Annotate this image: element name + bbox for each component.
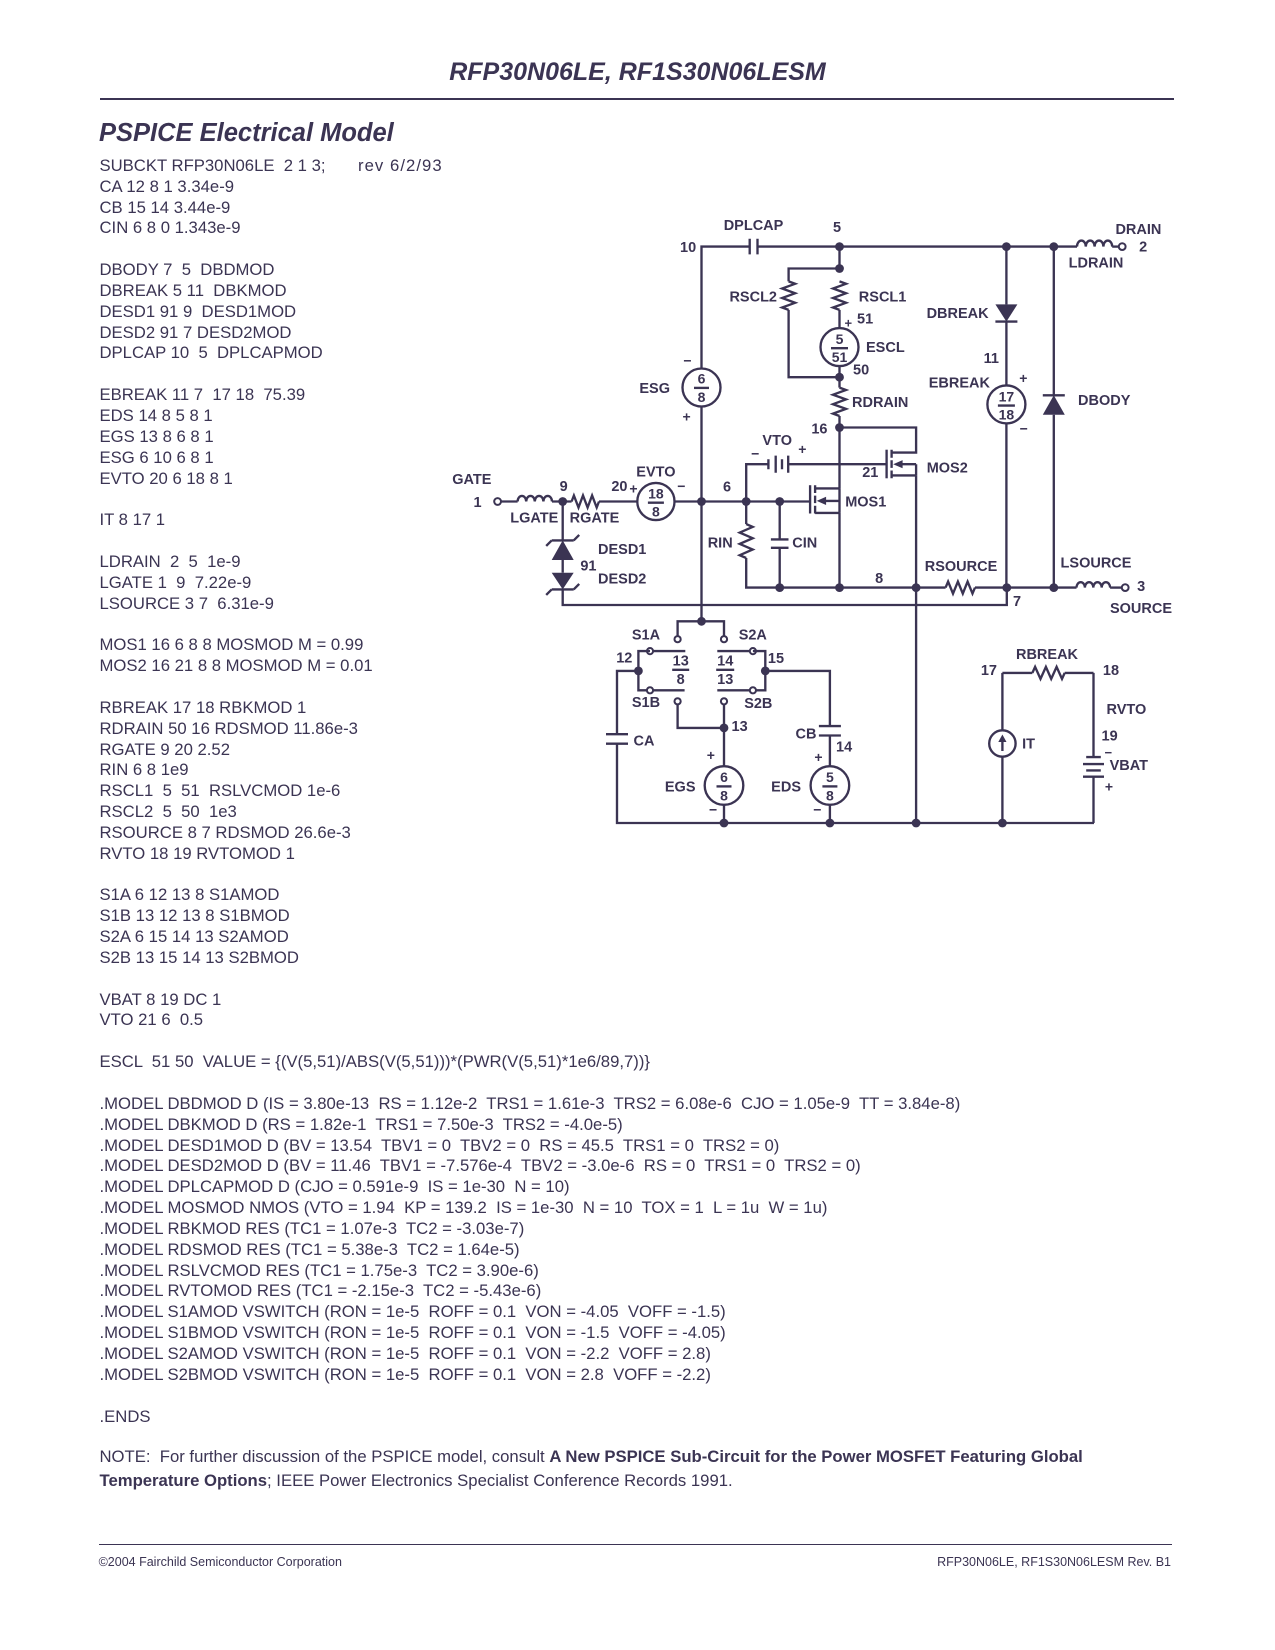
svg-text:19: 19 bbox=[1102, 729, 1118, 745]
node MOS1 source bbox=[835, 583, 844, 592]
wire LDRAIN to drain terminal bbox=[1112, 245, 1119, 247]
svg-text:LDRAIN: LDRAIN bbox=[1069, 256, 1124, 272]
svg-text:6: 6 bbox=[720, 769, 728, 785]
node MOS2 rail bbox=[912, 819, 921, 828]
wire EDS to rail bbox=[829, 805, 831, 823]
svg-text:50: 50 bbox=[853, 362, 869, 378]
svg-text:+: + bbox=[1019, 370, 1027, 386]
svg-text:RSCL2: RSCL2 bbox=[729, 289, 777, 305]
node switch common bbox=[697, 617, 706, 626]
node 7 bbox=[1002, 583, 1011, 592]
svg-text:11: 11 bbox=[984, 351, 999, 367]
svg-text:DESD2: DESD2 bbox=[598, 572, 646, 588]
svg-text:MOS2: MOS2 bbox=[927, 461, 968, 477]
wire DBODY to source rail bbox=[1053, 415, 1055, 588]
svg-text:DPLCAP: DPLCAP bbox=[724, 218, 784, 234]
svg-text:5: 5 bbox=[826, 769, 834, 785]
node 16 bbox=[835, 423, 844, 432]
wire node 15 to CB bbox=[765, 671, 830, 726]
svg-text:5: 5 bbox=[833, 220, 841, 236]
wire node10 to DPLCAP bbox=[702, 247, 750, 369]
svg-text:VTO: VTO bbox=[762, 433, 792, 449]
wire RVTO node 18 to VBAT bbox=[1092, 673, 1094, 757]
wire drain rail to DBREAK bbox=[1005, 247, 1007, 305]
resistor RSCL1 bbox=[833, 281, 906, 310]
svg-text:CB: CB bbox=[796, 726, 817, 742]
capacitor CA bbox=[606, 733, 655, 749]
node 8 rail bbox=[912, 583, 921, 592]
inductor LSOURCE bbox=[1061, 556, 1132, 588]
footer left bbox=[99, 1555, 342, 1569]
svg-text:ESG: ESG bbox=[639, 381, 670, 397]
svg-text:SOURCE: SOURCE bbox=[1110, 601, 1172, 617]
wire node 12 to CA bbox=[617, 671, 638, 734]
node CIN top bbox=[775, 497, 784, 506]
e-source EBREAK bbox=[929, 370, 1028, 437]
wire EGS to rail bbox=[723, 805, 725, 823]
svg-text:LGATE: LGATE bbox=[510, 511, 558, 527]
wire EVTO to MOS1 gate bbox=[675, 500, 811, 502]
capacitor CB bbox=[796, 726, 853, 755]
e-source ESG bbox=[639, 352, 720, 424]
header rule bbox=[100, 98, 1175, 100]
svg-text:RSOURCE: RSOURCE bbox=[925, 559, 998, 575]
footer rule bbox=[99, 1544, 1172, 1545]
wire DPLCAP to LDRAIN bbox=[758, 245, 1078, 247]
wire VTO to MOS2 gate node 21 bbox=[788, 463, 886, 465]
node CIN bottom bbox=[775, 583, 784, 592]
switch S1A bbox=[632, 628, 685, 655]
wire drain rail to DBODY bbox=[1053, 247, 1055, 396]
wire S1B S2B to node 13 bbox=[678, 704, 724, 728]
e-source ESCL bbox=[821, 328, 905, 366]
svg-text:CA: CA bbox=[634, 733, 655, 749]
wire DESD2 to node7 rail bbox=[563, 588, 1007, 605]
resistor RSCL2 bbox=[729, 281, 795, 310]
svg-text:+: + bbox=[798, 441, 806, 457]
capacitor CIN bbox=[771, 535, 817, 551]
page title bbox=[0, 58, 1275, 87]
wire node5 down bbox=[838, 247, 840, 269]
svg-text:S2A: S2A bbox=[739, 628, 768, 644]
label control 13/8 bbox=[672, 654, 689, 688]
svg-text:DBREAK: DBREAK bbox=[927, 306, 990, 322]
capacitor DPLCAP bbox=[724, 218, 784, 254]
svg-text:DRAIN: DRAIN bbox=[1115, 222, 1161, 238]
svg-text:DESD1: DESD1 bbox=[598, 542, 646, 558]
svg-text:10: 10 bbox=[680, 240, 696, 256]
resistor RGATE bbox=[570, 496, 620, 527]
svg-text:RDRAIN: RDRAIN bbox=[852, 395, 908, 411]
switch S2B bbox=[717, 687, 772, 712]
wire node 15 bracket bbox=[753, 651, 765, 690]
wire IT to rail bbox=[1001, 757, 1003, 823]
svg-text:13: 13 bbox=[732, 719, 748, 735]
wire node17 branch bbox=[1001, 673, 1003, 730]
svg-text:EGS: EGS bbox=[665, 780, 696, 796]
svg-text:EBREAK: EBREAK bbox=[929, 375, 991, 391]
wire RDRAIN to node 16 bbox=[838, 416, 840, 428]
svg-text:51: 51 bbox=[832, 349, 848, 365]
svg-text:17: 17 bbox=[981, 663, 997, 679]
node EGS rail bbox=[720, 819, 729, 828]
svg-text:GATE: GATE bbox=[452, 472, 492, 488]
wire node9 to DESD1 bbox=[562, 502, 564, 541]
svg-text:RBREAK: RBREAK bbox=[1016, 647, 1079, 663]
svg-text:−: − bbox=[709, 802, 717, 818]
svg-text:8: 8 bbox=[875, 571, 883, 587]
svg-text:18: 18 bbox=[1103, 663, 1119, 679]
resistor RSOURCE bbox=[925, 559, 998, 594]
svg-text:8: 8 bbox=[720, 787, 728, 803]
svg-text:91: 91 bbox=[580, 559, 596, 575]
node EDS rail bbox=[826, 819, 835, 828]
zener DESD1 bbox=[546, 535, 646, 560]
wire GATE to LGATE bbox=[501, 500, 518, 502]
resistor RBREAK bbox=[1002, 647, 1093, 679]
zener DESD2 bbox=[546, 572, 646, 595]
node IT rail bbox=[998, 819, 1007, 828]
e-source EGS bbox=[665, 747, 743, 818]
node 9 bbox=[558, 497, 567, 506]
wire CA to ground rail bbox=[617, 744, 1094, 823]
wire node6 to RIN bbox=[745, 502, 747, 525]
svg-text:EDS: EDS bbox=[771, 780, 801, 796]
node DBODY source bbox=[1049, 583, 1058, 592]
svg-text:−: − bbox=[677, 478, 685, 494]
inductor LGATE bbox=[510, 496, 558, 527]
svg-text:13: 13 bbox=[673, 654, 689, 670]
svg-text:7: 7 bbox=[1013, 594, 1021, 610]
svg-text:17: 17 bbox=[999, 388, 1015, 404]
svg-text:EVTO: EVTO bbox=[636, 464, 675, 480]
svg-text:LSOURCE: LSOURCE bbox=[1061, 556, 1132, 572]
battery VTO bbox=[751, 433, 806, 473]
svg-text:8: 8 bbox=[698, 389, 706, 405]
node junction 5-51 bbox=[835, 264, 844, 273]
svg-text:S1B: S1B bbox=[632, 695, 660, 711]
svg-text:14: 14 bbox=[717, 654, 733, 670]
wire RSCL2 top bbox=[789, 269, 840, 282]
diode DBREAK bbox=[927, 304, 1018, 322]
wire RSCL2 bottom bbox=[789, 310, 840, 377]
wire CIN top bbox=[779, 502, 781, 540]
switch S1B bbox=[632, 687, 685, 711]
wire node 12 bracket bbox=[638, 651, 650, 690]
svg-text:5: 5 bbox=[836, 331, 844, 347]
resistor RIN bbox=[708, 524, 753, 558]
wire node13 to EGS bbox=[723, 728, 725, 766]
footer right bbox=[937, 1555, 1171, 1569]
svg-text:VBAT: VBAT bbox=[1110, 758, 1149, 774]
svg-text:18: 18 bbox=[648, 485, 664, 501]
wire RSOURCE to LSOURCE bbox=[975, 586, 1077, 588]
svg-text:S2B: S2B bbox=[744, 696, 772, 712]
node 13 bbox=[720, 724, 729, 733]
node 15 bbox=[761, 667, 770, 676]
svg-text:18: 18 bbox=[999, 407, 1015, 423]
svg-text:3: 3 bbox=[1137, 579, 1145, 595]
wire RGATE to EVTO bbox=[599, 500, 637, 502]
svg-text:15: 15 bbox=[768, 651, 784, 667]
svg-text:+: + bbox=[1105, 778, 1113, 794]
node 12 bbox=[634, 667, 643, 676]
svg-text:51: 51 bbox=[857, 311, 873, 327]
wire ESG to switches bbox=[700, 407, 702, 622]
svg-text:RVTO: RVTO bbox=[1107, 702, 1147, 718]
wire DBREAK to EBREAK node 11 bbox=[1005, 322, 1007, 386]
current source IT bbox=[989, 730, 1035, 756]
transistor MOS1 bbox=[810, 485, 886, 513]
node drain junction DBODY bbox=[1049, 242, 1058, 251]
wire CIN bottom bbox=[779, 548, 781, 588]
node 50 bbox=[835, 373, 844, 382]
wire RSCL1 to ESCL bbox=[838, 310, 840, 328]
svg-text:+: + bbox=[683, 408, 691, 424]
svg-text:−: − bbox=[751, 445, 759, 461]
svg-text:−: − bbox=[683, 352, 691, 368]
wire switch top bracket bbox=[678, 621, 724, 636]
svg-text:16: 16 bbox=[811, 421, 827, 437]
node ESG junction bbox=[697, 497, 706, 506]
wire CB to EDS bbox=[829, 736, 831, 767]
svg-text:8: 8 bbox=[652, 504, 660, 520]
svg-text:MOS1: MOS1 bbox=[845, 495, 886, 511]
svg-text:13: 13 bbox=[717, 672, 733, 688]
svg-text:21: 21 bbox=[862, 465, 878, 481]
wire VBAT to rail bbox=[1092, 777, 1094, 823]
wire node6 to VTO bbox=[746, 464, 768, 501]
svg-text:−: − bbox=[1020, 421, 1028, 437]
svg-text:+: + bbox=[814, 749, 822, 765]
diode DBODY bbox=[1043, 393, 1131, 415]
resistor RDRAIN bbox=[833, 388, 908, 416]
wire RIN bottom to source rail bbox=[746, 558, 945, 588]
netlist text bbox=[100, 156, 961, 1427]
e-source EVTO bbox=[611, 464, 685, 520]
wire MOS1 source down bbox=[838, 513, 840, 588]
svg-text:ESCL: ESCL bbox=[866, 340, 905, 356]
wire node 91 bbox=[562, 560, 564, 573]
svg-text:RIN: RIN bbox=[708, 535, 733, 551]
wire node16 to MOS1 drain bbox=[838, 428, 840, 489]
wire LSOURCE to terminal bbox=[1110, 586, 1122, 588]
svg-text:20: 20 bbox=[611, 479, 627, 495]
node drain junction DBREAK bbox=[1002, 242, 1011, 251]
wire ESCL to node 50 bbox=[838, 366, 840, 388]
note paragraph bbox=[100, 1445, 1110, 1492]
svg-text:6: 6 bbox=[698, 371, 706, 387]
node 6 bbox=[742, 497, 751, 506]
wire node16 to MOS2 drain bbox=[840, 428, 917, 453]
switch S2A bbox=[717, 628, 767, 655]
transistor MOS2 bbox=[887, 450, 968, 479]
svg-text:RGATE: RGATE bbox=[570, 511, 620, 527]
svg-text:DBODY: DBODY bbox=[1078, 393, 1131, 409]
wire MOS2 source down bbox=[915, 475, 917, 823]
e-source EDS bbox=[771, 749, 849, 818]
svg-text:+: + bbox=[707, 747, 715, 763]
section heading bbox=[99, 119, 394, 148]
battery VBAT bbox=[1083, 745, 1148, 794]
svg-text:−: − bbox=[813, 802, 821, 818]
terminal SOURCE pin 3 bbox=[1122, 584, 1129, 591]
wire LGATE to node 9 bbox=[552, 500, 572, 502]
svg-text:8: 8 bbox=[826, 787, 834, 803]
svg-text:8: 8 bbox=[677, 672, 685, 688]
svg-text:6: 6 bbox=[723, 480, 731, 496]
terminal GATE bbox=[494, 498, 501, 505]
svg-text:1: 1 bbox=[473, 495, 481, 511]
svg-text:IT: IT bbox=[1022, 736, 1035, 752]
svg-text:S1A: S1A bbox=[632, 628, 661, 644]
svg-text:12: 12 bbox=[616, 651, 632, 667]
node 5 bbox=[835, 242, 844, 251]
wire EBREAK to node 7 bbox=[1005, 423, 1007, 587]
inductor LDRAIN bbox=[1069, 241, 1124, 272]
svg-text:2: 2 bbox=[1139, 239, 1147, 255]
svg-text:+: + bbox=[629, 481, 637, 497]
svg-text:CIN: CIN bbox=[792, 535, 817, 551]
svg-text:9: 9 bbox=[560, 479, 568, 495]
terminal DRAIN pin 2 bbox=[1119, 243, 1126, 250]
svg-text:RSCL1: RSCL1 bbox=[859, 289, 907, 305]
svg-text:14: 14 bbox=[836, 740, 852, 756]
label control 14/13 bbox=[716, 654, 734, 688]
circuit schematic bbox=[440, 210, 1185, 855]
